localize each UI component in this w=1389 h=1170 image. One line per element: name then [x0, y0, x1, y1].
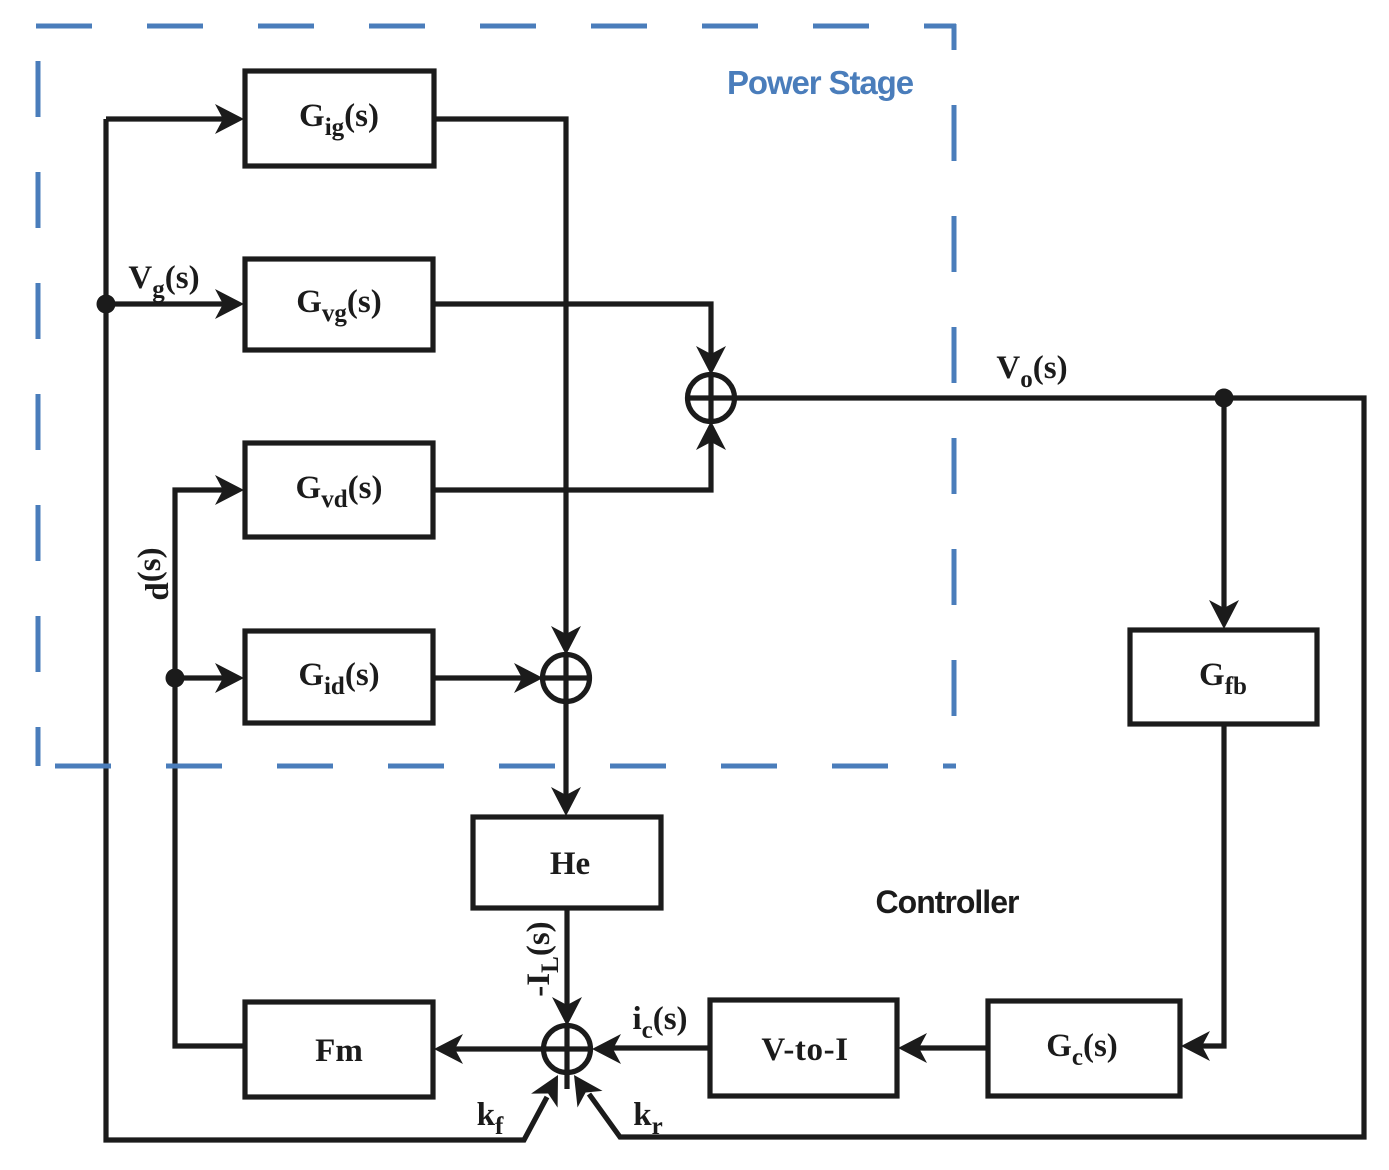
svg-text:He: He: [550, 846, 590, 882]
svg-text:Controller: Controller: [876, 884, 1019, 920]
svg-text:Power Stage: Power Stage: [727, 64, 914, 101]
svg-text:V-to-I: V-to-I: [761, 1032, 848, 1068]
svg-text:Fm: Fm: [315, 1033, 363, 1069]
